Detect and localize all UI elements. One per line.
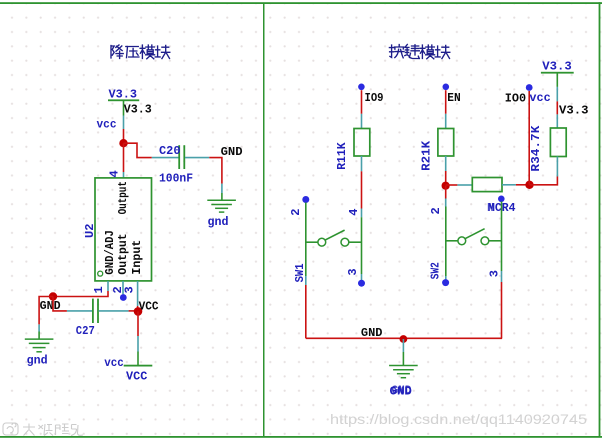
svg-text:3: 3: [488, 270, 502, 277]
SW1 crossbar right: [349, 241, 362, 243]
SW2 crossbar right: [489, 240, 502, 242]
junction dot EN node: [442, 182, 450, 190]
SW2 left pin: [445, 207, 447, 277]
svg-text:IO0: IO0: [505, 91, 526, 105]
wire junction down to SW2: [445, 186, 447, 199]
wire junction to C20: [124, 143, 152, 157]
svg-text:2: 2: [429, 207, 443, 214]
wire GND junction to left down: [39, 297, 53, 325]
pin wire R4 left: [457, 184, 472, 186]
svg-text:C27: C27: [76, 324, 95, 338]
power port V3.3 (left module top): [108, 88, 139, 130]
junction dot GND node: [49, 292, 57, 300]
svg-text:R21K: R21K: [419, 140, 433, 171]
wire C27 to VCC junction: [129, 310, 138, 312]
svg-text:V3.3: V3.3: [124, 103, 152, 117]
pin wire R4 right: [502, 184, 516, 186]
SW1 crossbar left: [306, 241, 318, 243]
pin stub U2 pin 4: [123, 172, 125, 178]
capacitor C27: [93, 299, 98, 323]
wire pin1 to GND junction: [53, 291, 108, 297]
wire pin3 to VCC junction: [137, 306, 139, 311]
svg-text:vcc: vcc: [529, 91, 550, 105]
SW1 left pin: [305, 203, 307, 277]
svg-text:IO9: IO9: [365, 91, 384, 105]
dangling dot R4 net: [498, 196, 505, 203]
wire SW1 to GND rail: [305, 285, 307, 338]
svg-text:4: 4: [107, 170, 121, 177]
junction dot IO0 node: [525, 181, 533, 189]
pin stub SW1 pin3: [361, 274, 363, 280]
svg-text:3: 3: [122, 286, 136, 293]
svg-text:GND: GND: [361, 326, 383, 340]
pin stub SW2 bottom left: [445, 276, 447, 280]
svg-text:Output: Output: [116, 233, 130, 274]
resistor R3: [550, 128, 566, 157]
title 按键模块: [389, 45, 449, 59]
svg-text:SW1: SW1: [293, 263, 307, 282]
pin wire C20 right: [185, 157, 209, 159]
svg-text:Output: Output: [116, 181, 130, 214]
dangling dot SW1 pin3: [358, 280, 365, 287]
SW1 lever: [325, 230, 345, 240]
svg-text:vcc: vcc: [104, 356, 124, 370]
pin wire R1 bottom: [361, 156, 363, 171]
module divider line: [263, 3, 265, 437]
GND rail wire: [306, 337, 502, 339]
svg-text:2: 2: [289, 209, 303, 216]
svg-text:gnd: gnd: [208, 215, 229, 229]
svg-text:1: 1: [92, 286, 106, 293]
SW1 contact circle left: [318, 238, 326, 246]
port IO9 dangling dot: [358, 84, 365, 91]
pin wire C27 left: [67, 310, 92, 312]
resistor R4: [472, 178, 502, 192]
SW2 right pin: [501, 202, 503, 272]
SW1 right pin: [361, 217, 363, 274]
dangling dot SW1 pin2: [302, 196, 309, 203]
pin wire C27 right: [99, 310, 129, 312]
wire R2 to junction: [445, 171, 447, 186]
pin wire R1 top: [361, 114, 363, 129]
switch SW1: [289, 196, 365, 287]
pin wire R3 top: [556, 114, 558, 128]
pin wire R3 bottom: [556, 157, 558, 177]
svg-text:vcc: vcc: [97, 118, 117, 132]
dangling node dot pin2: [120, 294, 127, 301]
svg-text:VCC: VCC: [139, 300, 159, 314]
resistor R1: [354, 129, 370, 157]
wire V3.3 to R3: [556, 101, 558, 114]
pin stub U2 pin2 (dangling): [122, 281, 124, 294]
wire SW2 to GND rail: [501, 282, 503, 338]
svg-text:GND: GND: [392, 384, 412, 398]
svg-text:VCC: VCC: [126, 370, 147, 384]
wire R1 to SW1 pin4: [361, 171, 363, 208]
SW2 contact circle right: [481, 237, 489, 245]
svg-text:U2: U2: [83, 224, 97, 239]
pin wire GND port: [402, 339, 404, 352]
svg-text:SW2: SW2: [428, 262, 442, 279]
svg-text:V3.3: V3.3: [542, 60, 572, 74]
pin stub SW1 bottom left: [305, 276, 307, 285]
wire VCC junction down: [137, 311, 139, 336]
wire junction right to R4: [446, 184, 458, 186]
svg-text:R11K: R11K: [335, 142, 349, 170]
sheet border top: [0, 2, 602, 4]
svg-text:GND: GND: [221, 145, 243, 159]
wire V3.3 to junction: [123, 129, 125, 143]
ground symbol GND (rail): [389, 366, 418, 378]
SW2 crossbar left: [446, 240, 458, 242]
title 降压模块: [111, 45, 170, 59]
svg-text:100nF: 100nF: [159, 171, 193, 185]
pin wire R2 bottom: [445, 156, 447, 171]
ground symbol gnd (bottom left): [25, 339, 54, 352]
pin wire R2 top: [445, 114, 447, 129]
sheet border right: [599, 2, 601, 437]
junction dot GND rail: [400, 335, 408, 343]
dangling dot SW2 left: [442, 279, 449, 286]
power port VCC (bottom): [124, 336, 153, 367]
power port V3.3 (right): [541, 60, 574, 102]
port EN dangling dot: [443, 84, 450, 91]
wire junction to R3 corner: [530, 177, 558, 185]
svg-text:GND/ADJ: GND/ADJ: [103, 230, 117, 274]
wire IO0 down to junction: [528, 91, 530, 185]
svg-text:R34.7K: R34.7K: [529, 125, 543, 172]
wire junction down to U2 pin 4: [123, 143, 125, 172]
junction dot VCC node: [134, 307, 143, 316]
wire C20 to gnd: [209, 158, 222, 184]
pin stub SW2 pin3: [501, 271, 503, 282]
junction dot vcc node: [119, 139, 127, 147]
pin stub SW1 pin4: [361, 209, 363, 218]
pin stub U2 pin3: [137, 281, 139, 306]
SW2 lever: [465, 229, 485, 239]
pin stub U2 pin1: [107, 281, 109, 291]
resistor R2: [438, 129, 454, 157]
wire R4 to IO0 junction: [516, 184, 530, 186]
svg-text:4: 4: [347, 209, 361, 216]
switch SW2: [428, 196, 504, 287]
svg-text:https://blog.csdn.net/qq114092: https://blog.csdn.net/qq1140920745: [330, 411, 587, 427]
pin wire C20 left: [152, 157, 179, 159]
svg-text:N: N: [487, 201, 494, 215]
svg-text:gnd: gnd: [27, 354, 48, 368]
pin 1 indicator circle: [98, 271, 103, 276]
capacitor C20: [179, 145, 184, 169]
pin wire to gnd symbol: [38, 324, 40, 331]
svg-text:3: 3: [346, 268, 360, 275]
wire EN to R2: [445, 90, 447, 114]
wire IO9 to R1: [361, 90, 363, 114]
wire GND junction down to C27: [53, 297, 67, 311]
svg-text:EN: EN: [447, 91, 460, 105]
ground symbol gnd (C20): [207, 200, 236, 212]
sheet border bottom: [0, 436, 602, 438]
port IO0 dangling dot: [526, 84, 533, 91]
pin wire to ground: [221, 184, 223, 193]
regulator U2 box: [95, 178, 152, 281]
SW1 contact circle right: [341, 238, 349, 246]
svg-text:C20: C20: [159, 144, 181, 158]
pin stub SW2 pin2: [445, 199, 447, 207]
watermark logo: [3, 423, 83, 436]
SW2 contact circle left: [458, 237, 466, 245]
svg-text:Input: Input: [130, 240, 144, 275]
svg-text:V3.3: V3.3: [559, 104, 589, 118]
